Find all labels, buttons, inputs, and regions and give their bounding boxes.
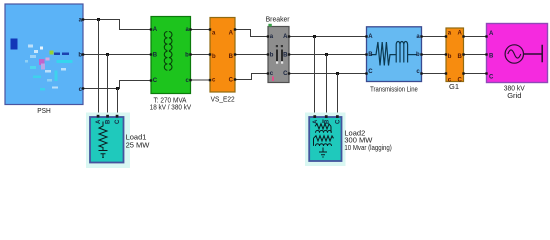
svg-text:Transmission Line: Transmission Line [370,84,418,93]
svg-text:A: A [283,34,288,40]
Load2 selection halo [305,113,346,167]
svg-text:PSH: PSH [37,106,51,115]
svg-text:Breaker: Breaker [266,14,290,23]
wire line.c to G1 c [422,73,447,75]
junction node rail A / Load2 tap [313,35,316,38]
wire T.b to VS_E22 b [191,54,211,56]
svg-text:A: A [368,34,373,40]
svg-text:b: b [416,52,420,58]
wire Load1 drop C [117,89,119,117]
wire Load2 drop C [337,74,339,117]
wire VS_E22.B to breaker b [235,54,268,56]
grid sine wave icon [508,50,521,58]
subsystem VS_E22 block body [210,18,235,93]
wire Load1 drop A [98,20,100,117]
junction node b / Load1 tap [106,53,109,56]
svg-text:C: C [283,71,288,77]
Load2 RL + ground icon [314,120,334,158]
svg-text:B: B [283,53,288,59]
wire G1.A to grid A [464,36,487,38]
svg-text:C: C [335,119,341,124]
wire line.a to G1 a [422,36,447,38]
svg-text:B: B [489,53,494,59]
wire breaker.C to line C [289,73,367,75]
breaker green top mark [268,24,271,27]
svg-text:C: C [368,69,373,75]
svg-text:A: A [489,31,494,37]
svg-text:A: A [229,30,234,36]
breaker switch icon [276,45,283,64]
junction node rail B / Load2 tap [325,53,328,56]
Load1 block body [90,117,124,163]
Load1 resistor + ground icon [99,122,108,158]
svg-text:b: b [448,54,452,60]
breaker pink bottom mark [272,77,274,82]
svg-text:Grid: Grid [507,91,521,100]
svg-text:A: A [96,119,102,124]
svg-text:C: C [489,74,494,80]
svg-text:G1: G1 [449,82,459,91]
svg-text:A: A [457,30,462,36]
svg-text:b: b [185,52,189,58]
wire Load2 drop B [326,55,328,117]
breaker block body [268,27,289,83]
transmission line block body [367,27,422,82]
wire phase c: PSH c to transformer C [83,81,151,89]
svg-text:A: A [313,119,319,124]
grid ground stub wire [524,45,543,62]
transformer winding icon [164,32,172,71]
subsystem G1 block body [446,28,464,82]
svg-text:18 kV / 380 kV: 18 kV / 380 kV [150,102,192,111]
svg-text:B: B [229,54,234,60]
wire Load2 drop A [314,37,316,117]
wire breaker.B to line B [289,54,367,56]
port stub dots on block edges [82,18,488,118]
svg-text:VS_E22: VS_E22 [211,95,235,104]
grid AC source circle icon [505,45,523,63]
Load2 block body [309,117,341,161]
transformer T block body [151,17,191,94]
wire VS_E22.C to breaker c [235,74,268,80]
wire G1.C to grid C [464,73,487,75]
wire Load1 drop B [107,55,109,117]
wire line.b to G1 b [422,54,447,56]
junction node a / Load1 tap [97,18,100,21]
wire T.a to VS_E22 a [191,29,211,31]
junction node c / Load1 tap [116,87,119,90]
svg-text:b: b [78,52,82,58]
svg-text:b: b [270,53,274,59]
wire phase b: PSH b to transformer B [83,54,151,56]
Load1 selection halo [86,113,130,169]
svg-text:C: C [229,77,234,83]
svg-text:10 Mvar (lagging): 10 Mvar (lagging) [344,143,392,152]
svg-text:25 MW: 25 MW [126,140,151,149]
svg-text:C: C [153,78,158,84]
PSH thumbnail contents [11,39,73,91]
subsystem PSH block body [5,4,83,105]
svg-text:b: b [212,54,216,60]
svg-text:B: B [457,54,462,60]
wire G1.B to grid B [464,54,487,56]
junction node rail C / Load2 tap [336,72,339,75]
svg-text:B: B [153,52,158,58]
svg-text:A: A [153,27,158,33]
grid source block body [487,24,548,83]
wire breaker.A to line A [289,36,367,38]
wire phase a: PSH a to transformer A [83,20,151,30]
transmission line RL icon [371,42,418,66]
svg-text:B: B [106,119,112,124]
wire VS_E22.A to breaker a [235,30,268,37]
svg-text:B: B [368,52,373,58]
svg-text:C: C [115,119,121,124]
wire T.c to VS_E22 c [191,79,211,81]
